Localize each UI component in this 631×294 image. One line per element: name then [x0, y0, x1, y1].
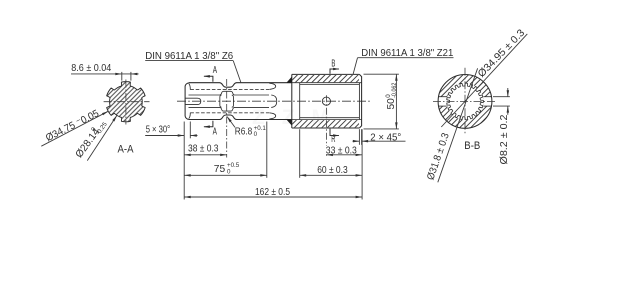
splined shaft body outline	[185, 83, 292, 120]
weld bead bottom	[286, 120, 291, 126]
hub wall hatching	[292, 75, 359, 82]
section arrow A top	[204, 76, 213, 82]
dimension 50 vertical	[395, 74, 397, 129]
svg-text:R6.8: R6.8	[235, 127, 253, 138]
svg-text:33 ± 0.3: 33 ± 0.3	[326, 145, 357, 156]
svg-text:0: 0	[254, 131, 258, 138]
B-B cross hole channels	[437, 97, 447, 106]
section arrow B top	[330, 69, 339, 74]
watermark	[252, 106, 330, 129]
svg-text:A-A: A-A	[118, 143, 135, 155]
svg-text:R: R	[331, 134, 335, 145]
section A-A spline profile	[107, 82, 145, 122]
dimension 8.6	[121, 72, 123, 81]
spline root hidden lines (dashed)	[190, 90, 269, 113]
dimension 33	[326, 154, 362, 156]
svg-text:8.6 ± 0.04: 8.6 ± 0.04	[71, 63, 111, 74]
dimension 60	[300, 174, 362, 176]
section arrow B bottom	[330, 129, 339, 136]
svg-text:75: 75	[214, 164, 226, 175]
leader diameter 34.95	[441, 34, 527, 127]
leader diameter 31.8	[438, 68, 478, 182]
dimension 2x45	[353, 140, 360, 142]
groove section line (A-A plane)	[226, 79, 228, 158]
svg-text:B-B: B-B	[464, 140, 480, 152]
svg-text:0: 0	[227, 169, 231, 176]
svg-text:Ø8.2 ± 0.2: Ø8.2 ± 0.2	[499, 114, 510, 164]
B-B outer circle	[438, 75, 492, 129]
section arrow A bottom	[204, 121, 213, 127]
A-A centerlines	[104, 101, 150, 103]
B-B internal spline profile	[447, 83, 484, 120]
spline valley edge lines	[185, 83, 277, 119]
leader diameter 34.75	[41, 111, 108, 146]
svg-text:60 ± 0.3: 60 ± 0.3	[317, 165, 348, 176]
leader diameter 28.14	[87, 115, 117, 160]
weld bead top	[286, 77, 291, 83]
svg-text:5 × 30°: 5 × 30°	[146, 125, 171, 136]
B-B channel edges	[438, 97, 492, 106]
svg-text:-0.062: -0.062	[391, 82, 398, 97]
hub outline	[292, 74, 362, 128]
B-B centerlines	[433, 100, 497, 102]
svg-text:50: 50	[386, 98, 397, 110]
dimension 5x30	[145, 135, 184, 137]
dimension 8.2 vertical	[493, 96, 510, 98]
svg-text:A: A	[213, 126, 217, 137]
svg-text:A: A	[213, 65, 217, 76]
svg-text:162 ± 0.5: 162 ± 0.5	[255, 187, 290, 198]
dimension 162	[184, 196, 362, 198]
dimension 38	[184, 154, 227, 156]
dimension R6.8 leader	[227, 117, 235, 128]
svg-text:38 ± 0.3: 38 ± 0.3	[188, 144, 219, 155]
hub bore lines	[292, 83, 362, 120]
cross hole	[322, 97, 330, 105]
svg-text:2 × 45°: 2 × 45°	[370, 132, 401, 143]
section B-B hub ring hatch	[436, 72, 494, 131]
extension lines	[184, 74, 399, 199]
main axis centerline	[177, 100, 371, 102]
svg-text:B: B	[331, 58, 335, 69]
dimension 75	[184, 174, 267, 176]
